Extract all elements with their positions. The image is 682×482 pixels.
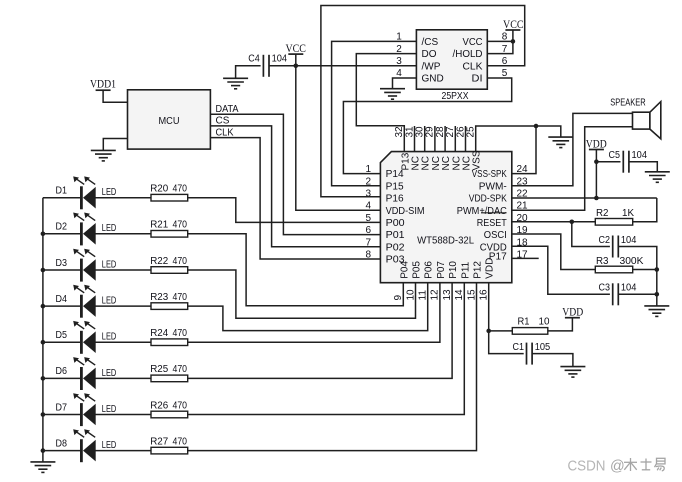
ground MCU	[91, 149, 116, 151]
svg-text:/WP: /WP	[422, 61, 441, 72]
U2 pin 30 stub wire	[424, 126, 426, 152]
resistor R23	[151, 303, 188, 310]
svg-text:DATA: DATA	[216, 104, 239, 115]
U2 RESET overline	[481, 212, 507, 214]
junction bus D6	[41, 376, 46, 381]
wire bus to D5	[43, 341, 81, 343]
U2 pin 27 stub wire	[454, 126, 456, 152]
watermark glyph mu	[624, 458, 637, 471]
wire D3 to R22	[95, 269, 151, 271]
svg-text:D4: D4	[56, 294, 68, 305]
svg-text:14: 14	[454, 289, 465, 301]
svg-text:25: 25	[466, 126, 477, 138]
wire R27 to U2	[188, 283, 477, 451]
svg-text:OSCI: OSCI	[484, 230, 507, 241]
junction bus D7	[41, 412, 46, 417]
svg-text:P05: P05	[412, 261, 423, 279]
wire U2 PWM+ to speaker	[512, 127, 633, 211]
svg-text:VDD: VDD	[485, 258, 496, 279]
svg-text:R26: R26	[150, 400, 168, 411]
svg-text:VDD: VDD	[562, 306, 583, 318]
wire bus to D2	[43, 233, 81, 235]
LED D1	[80, 186, 83, 209]
watermark glyph shi	[641, 459, 652, 470]
wire bus to D7	[43, 414, 81, 416]
svg-text:470: 470	[173, 364, 188, 375]
svg-text:470: 470	[173, 220, 188, 231]
svg-text:D3: D3	[56, 258, 68, 269]
wire MCU CS to U2 P02	[210, 126, 380, 247]
svg-text:R20: R20	[150, 184, 168, 195]
resistor R2	[595, 219, 632, 226]
capacitor C2	[612, 236, 614, 258]
svg-text:R27: R27	[150, 436, 168, 447]
wire ground to C4	[236, 66, 261, 79]
svg-text:D7: D7	[56, 402, 68, 413]
wire U2 OSCI to R3	[512, 234, 596, 270]
svg-text:SPEAKER: SPEAKER	[610, 98, 646, 109]
ground C1	[560, 366, 585, 368]
svg-text:105: 105	[535, 342, 551, 353]
wire R23 to U2	[188, 283, 428, 331]
svg-text:D1: D1	[56, 186, 68, 197]
wire C1 to ground	[532, 354, 573, 367]
wire D4 to R23	[95, 305, 151, 307]
ground VSS net	[548, 136, 573, 138]
svg-text:LED: LED	[102, 187, 117, 198]
wire MCU to ground	[103, 139, 127, 151]
svg-text:D5: D5	[56, 330, 68, 341]
svg-text:R2: R2	[596, 208, 609, 219]
svg-text:P02: P02	[386, 242, 405, 253]
wire U2 RESET to R2	[512, 221, 596, 223]
svg-text:C4: C4	[248, 54, 260, 65]
svg-text:DO: DO	[422, 49, 437, 60]
svg-text:P16: P16	[386, 194, 404, 205]
svg-text:D6: D6	[56, 366, 68, 377]
wire VCC stem	[295, 54, 297, 66]
svg-text:@: @	[610, 459, 625, 475]
junction bus D3	[41, 268, 46, 273]
wire U1 CLK loop to U2 P16	[321, 6, 525, 197]
junction bus D8	[41, 448, 46, 453]
svg-text:CLK: CLK	[216, 127, 234, 138]
svg-text:MCU: MCU	[159, 115, 180, 127]
wire VSS net to ground	[536, 126, 561, 137]
LED D6	[80, 367, 83, 390]
wire U1 DO to U2 P13	[356, 54, 416, 152]
LED D5	[80, 331, 83, 354]
wire VDD to VDD-SPK	[595, 150, 597, 199]
wire bus to D1	[43, 197, 81, 199]
svg-text:P15: P15	[386, 181, 404, 192]
svg-text:VDD-SIM: VDD-SIM	[386, 206, 425, 217]
wire U2 VSS pin25 to net	[476, 126, 536, 152]
resistor R24	[151, 339, 188, 346]
wire U2 P17 stub	[512, 257, 539, 259]
wire VDD1 to MCU	[103, 90, 127, 102]
LED D7	[80, 403, 83, 426]
junction bus D5	[41, 340, 46, 345]
wire U2 VDD-SPK pin22	[512, 197, 657, 199]
wire bus to D8	[43, 450, 81, 452]
wire RESET to C2	[572, 222, 610, 247]
svg-text:R25: R25	[150, 364, 168, 375]
wire U2 VDD pin16 down	[488, 283, 490, 331]
svg-text:LED: LED	[102, 223, 117, 234]
LED D4	[80, 295, 83, 318]
svg-text:VDD: VDD	[586, 138, 607, 150]
wire right riser to C3	[656, 270, 658, 295]
resistor R26	[151, 411, 188, 418]
svg-text:PWM-: PWM-	[479, 181, 507, 192]
wire R25 to U2	[188, 283, 452, 379]
svg-text:VCC: VCC	[285, 43, 306, 55]
U2 pin 26 stub wire	[465, 126, 467, 152]
IC U2 WT588D-32L body	[380, 152, 511, 283]
wire R3 right	[633, 269, 657, 271]
svg-text:R1: R1	[518, 316, 530, 327]
svg-text:WT588D-32L: WT588D-32L	[417, 234, 474, 246]
svg-text:PWM+/DAC: PWM+/DAC	[457, 206, 507, 217]
LED D8	[80, 439, 83, 462]
svg-text:R23: R23	[150, 292, 168, 303]
wire pin16 to C1	[489, 331, 524, 354]
junction bus D2	[41, 232, 46, 237]
wire C5 to ground	[629, 162, 657, 172]
MCU block body	[128, 90, 211, 149]
svg-text:C5: C5	[609, 150, 621, 161]
svg-text:470: 470	[173, 400, 188, 411]
svg-text:104: 104	[272, 54, 288, 65]
LED D3	[80, 259, 83, 282]
power VDD bar at R1	[565, 317, 580, 319]
svg-text:P12: P12	[473, 261, 484, 279]
wire D1 to R20	[95, 197, 151, 199]
svg-text:VCC: VCC	[463, 37, 483, 48]
resistor R1	[512, 328, 548, 335]
svg-text:GND: GND	[422, 74, 444, 85]
svg-text:10: 10	[539, 316, 550, 327]
junction VCC pin8	[511, 39, 516, 44]
wire MCU CLK to U2 P03	[210, 138, 380, 259]
U2 pin 29 stub wire	[434, 126, 436, 152]
wire D5 to R24	[95, 341, 151, 343]
capacitor C4	[262, 55, 264, 77]
wire R22 to U2	[188, 270, 416, 318]
svg-text:104: 104	[621, 235, 637, 246]
wire MCU DATA to U2 P01	[210, 114, 380, 234]
svg-text:470: 470	[173, 292, 188, 303]
svg-text:C2: C2	[599, 235, 611, 246]
svg-text:P00: P00	[386, 218, 405, 229]
junction C3 right	[655, 292, 660, 297]
wire C3 to ground riser	[618, 293, 657, 295]
svg-text:104: 104	[621, 283, 637, 294]
wire R20 to U2	[188, 198, 381, 223]
U2 pin 31 stub wire	[414, 126, 416, 152]
svg-text:/HOLD: /HOLD	[453, 49, 483, 60]
svg-text:10: 10	[405, 289, 416, 301]
svg-text:P07: P07	[436, 261, 447, 279]
wire pin16 to R1	[489, 330, 513, 332]
power VCC bar at U1	[505, 29, 520, 31]
watermark glyph yi	[655, 458, 666, 471]
svg-text:470: 470	[173, 328, 188, 339]
svg-text:13: 13	[442, 289, 453, 301]
wire bus to D4	[43, 305, 81, 307]
svg-text:12: 12	[430, 289, 441, 301]
LED D2	[80, 222, 83, 245]
resistor R20	[151, 194, 188, 201]
junction VDD-SPK	[594, 196, 599, 201]
wire U2 PWM- to speaker	[512, 113, 633, 185]
svg-text:P11: P11	[460, 261, 471, 278]
ground U1 GND	[380, 88, 405, 90]
svg-text:104: 104	[632, 150, 648, 161]
wire D6 to R25	[95, 377, 151, 379]
svg-text:LED: LED	[102, 404, 117, 415]
svg-text:R21: R21	[150, 220, 168, 231]
junction bus D4	[41, 304, 46, 309]
IC U1 25PXX body	[416, 30, 487, 89]
ground LED bus	[30, 461, 55, 463]
capacitor C5	[622, 151, 624, 173]
svg-text:LED: LED	[102, 440, 117, 451]
ground C5	[645, 171, 670, 173]
junction VDD pin16	[486, 329, 491, 334]
svg-text:RESET: RESET	[477, 218, 507, 229]
svg-text:VDD-SPK: VDD-SPK	[469, 194, 507, 205]
svg-text:P04: P04	[399, 261, 410, 279]
svg-text:LED: LED	[102, 296, 117, 307]
svg-text:470: 470	[173, 184, 188, 195]
wire riser to big ground	[656, 294, 658, 306]
svg-text:C1: C1	[513, 342, 525, 353]
wire U1 DI to U2 P14	[343, 78, 511, 174]
wire C2 to right riser	[618, 247, 657, 270]
svg-text:LED: LED	[102, 259, 117, 270]
svg-text:R24: R24	[150, 328, 168, 339]
svg-text:15: 15	[466, 289, 477, 301]
svg-text:11: 11	[418, 290, 429, 301]
svg-text:1K: 1K	[622, 208, 634, 219]
svg-text:D2: D2	[56, 222, 68, 233]
svg-text:3: 3	[365, 189, 371, 200]
svg-text:R22: R22	[150, 256, 168, 267]
ground C4	[223, 77, 248, 79]
U2 pin 28 stub wire	[444, 126, 446, 152]
svg-text:/CS: /CS	[422, 37, 439, 48]
resistor R3	[595, 266, 632, 273]
junction VDD C5	[594, 159, 599, 164]
power VDD1 bar	[96, 89, 111, 91]
svg-text:470: 470	[173, 256, 188, 267]
wire bus to D6	[43, 377, 81, 379]
svg-text:CSDN: CSDN	[568, 459, 606, 475]
wire D2 to R21	[95, 233, 151, 235]
resistor R25	[151, 375, 188, 382]
wire C4 to U1 /WP	[269, 65, 416, 67]
junction R3 right	[655, 267, 660, 272]
wire R24 to U2	[188, 283, 440, 343]
svg-text:D8: D8	[56, 438, 68, 449]
power VDD bar at C5	[589, 149, 604, 151]
ground right net	[644, 305, 669, 307]
wire U2 CVDD to C3	[512, 246, 610, 294]
wire D8 to R27	[95, 450, 151, 452]
svg-text:C3: C3	[599, 283, 611, 294]
junction RESET C2	[570, 220, 575, 225]
wire R26 to U2	[188, 283, 465, 415]
wire R21 to U2	[188, 234, 404, 306]
junction VCC C4	[294, 64, 299, 69]
resistor R22	[151, 267, 188, 274]
wire C5 left	[596, 161, 620, 163]
wire R1 to VDD	[548, 318, 573, 331]
svg-text:P06: P06	[424, 261, 435, 279]
svg-text:16: 16	[479, 289, 490, 301]
svg-text:DI: DI	[472, 74, 483, 85]
svg-text:470: 470	[173, 436, 188, 447]
resistor R21	[151, 231, 188, 238]
svg-text:VSS: VSS	[472, 150, 483, 170]
svg-text:LED: LED	[102, 368, 117, 379]
svg-text:25PXX: 25PXX	[442, 91, 469, 102]
svg-text:P01: P01	[386, 230, 405, 241]
wire bus to D3	[43, 269, 81, 271]
wire R2 right riser	[633, 198, 657, 222]
svg-text:300K: 300K	[620, 256, 644, 267]
resistor R27	[151, 447, 188, 454]
svg-text:CLK: CLK	[463, 61, 483, 72]
svg-text:R3: R3	[596, 256, 609, 267]
wire U1 pin8 stub	[487, 40, 513, 42]
wire U1 /CS to U2 P15	[332, 41, 417, 185]
wire VCC to U2 VDD-SIM	[296, 66, 381, 210]
svg-text:CS: CS	[216, 116, 230, 127]
svg-text:P10: P10	[448, 261, 459, 279]
wire D7 to R26	[95, 414, 151, 416]
svg-text:LED: LED	[102, 332, 117, 343]
wire LED common bus	[42, 198, 44, 462]
speaker SP1	[633, 112, 650, 129]
wire U1 GND pin to ground	[393, 78, 417, 89]
junction VSS net	[534, 124, 539, 129]
capacitor C1	[526, 343, 528, 365]
wire U2 VSS-SPK pin24 riser	[512, 126, 536, 174]
power VCC bar at C4	[288, 53, 303, 55]
capacitor C3	[612, 283, 614, 305]
wire VCC to U1 pin8 pin7	[487, 30, 513, 54]
svg-text:9: 9	[393, 295, 404, 301]
svg-text:VDD1: VDD1	[90, 79, 116, 91]
